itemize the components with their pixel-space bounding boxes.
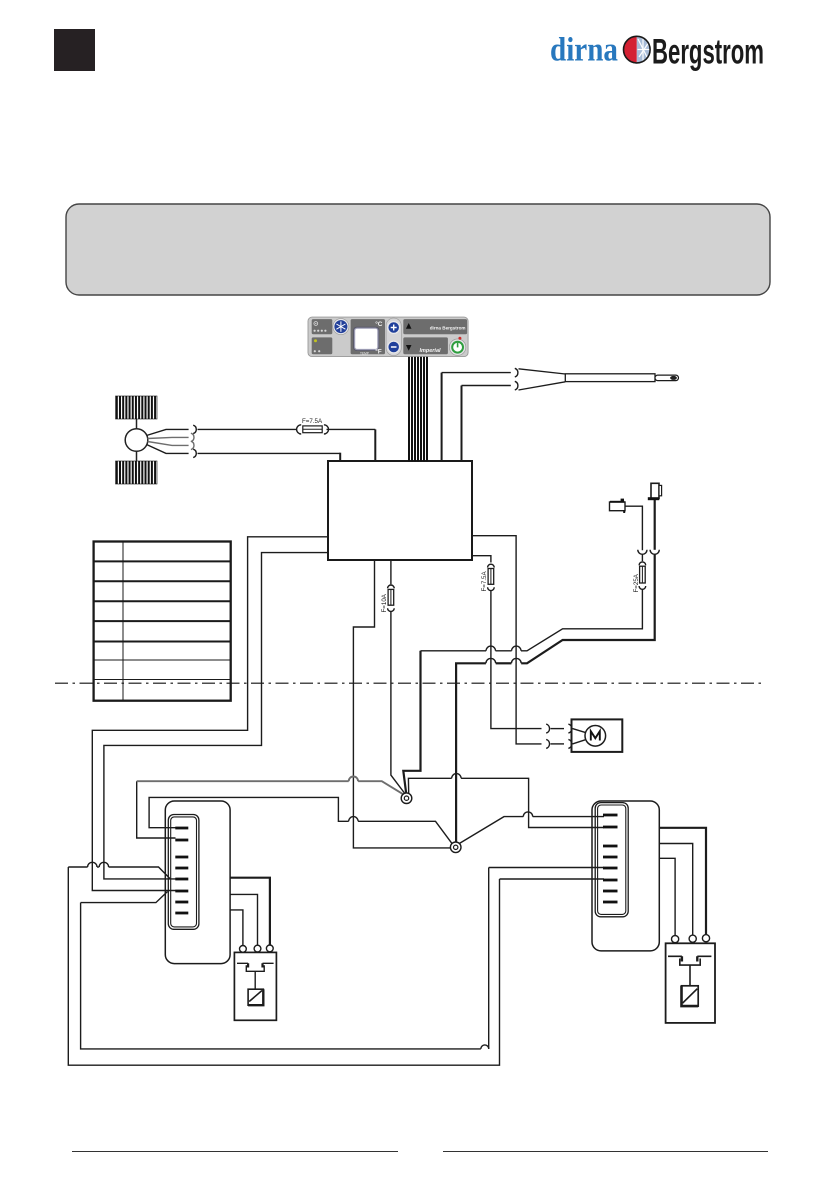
svg-text:°F: °F xyxy=(375,348,382,356)
svg-text:°C: °C xyxy=(375,320,383,328)
svg-text:Bergstrom: Bergstrom xyxy=(652,32,764,72)
svg-text:F=7.5A: F=7.5A xyxy=(481,571,488,592)
svg-text:F=10A: F=10A xyxy=(381,593,388,612)
svg-text:Imperial: Imperial xyxy=(419,348,441,354)
svg-text:dirna Bergstrom: dirna Bergstrom xyxy=(430,326,466,331)
svg-text:F=25A: F=25A xyxy=(633,573,640,592)
svg-text:TEMP: TEMP xyxy=(360,352,369,356)
svg-text:F=7.5A: F=7.5A xyxy=(302,418,323,425)
svg-text:dirna: dirna xyxy=(550,32,618,69)
